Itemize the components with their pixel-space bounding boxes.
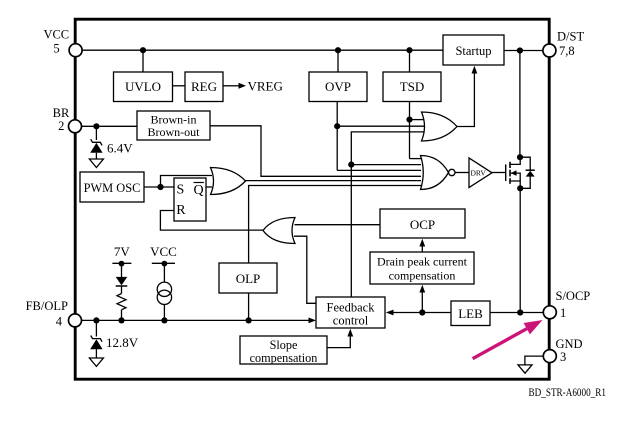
- svg-text:DRV: DRV: [471, 168, 487, 177]
- wire OVP drop: [337, 50, 339, 72]
- svg-text:OVP: OVP: [325, 79, 351, 94]
- diode 7V clamp: [116, 264, 128, 294]
- svg-text:control: control: [333, 314, 369, 328]
- svg-text:1: 1: [560, 306, 566, 320]
- flip-flop SR latch: [174, 178, 206, 221]
- svg-text:D/ST: D/ST: [557, 30, 584, 44]
- or-gate OLP-OR (left facing): [263, 218, 295, 244]
- svg-text:PWM OSC: PWM OSC: [84, 181, 141, 195]
- box Brown-in Brown-out: [137, 111, 210, 140]
- node rail 12.8V junction: [93, 317, 99, 323]
- svg-text:compensation: compensation: [250, 351, 318, 365]
- svg-text:compensation: compensation: [389, 268, 456, 282]
- svg-text:UVLO: UVLO: [125, 79, 161, 94]
- wire OR2 output to Startup: [457, 73, 474, 127]
- current source to FB pin: [157, 264, 171, 321]
- pin S/OCP 1: [543, 289, 590, 320]
- wire BR rail: [81, 125, 137, 127]
- wire Brown-out to NOR: [210, 126, 421, 177]
- or-gate OR2 (OVP/TSD/latch): [422, 112, 458, 141]
- node OSC junction: [157, 184, 163, 190]
- or-gate OR1 (OSC/Qbar): [211, 168, 246, 195]
- node riser junction: [348, 162, 354, 168]
- wire DPCC to OCP arrow: [421, 246, 423, 252]
- svg-text:LEB: LEB: [458, 306, 483, 321]
- svg-text:2: 2: [58, 119, 64, 133]
- svg-text:TSD: TSD: [400, 79, 425, 94]
- node VCC-OVP junction: [335, 47, 341, 53]
- node BR zener junction: [93, 123, 99, 129]
- wire TSD to OR2 input: [410, 119, 425, 121]
- wire NOR to DRV: [455, 172, 469, 174]
- svg-text:Drain peak current: Drain peak current: [377, 254, 468, 268]
- box Feedback control: [316, 297, 385, 328]
- node D/ST drain junction: [517, 47, 523, 53]
- svg-text:7V: 7V: [114, 244, 131, 259]
- svg-text:BD_STR-A6000_R1: BD_STR-A6000_R1: [529, 387, 607, 399]
- pin FB/OLP 4: [26, 299, 82, 328]
- node source-SOCP junction: [517, 309, 523, 315]
- zener diode 6.4V: [90, 139, 102, 159]
- wire R input path from OLP-OR: [160, 211, 263, 231]
- svg-text:6.4V: 6.4V: [107, 141, 133, 156]
- node source junction: [517, 185, 523, 191]
- wire riser to NOR input: [351, 164, 421, 166]
- wire OSC to OR1 top input: [161, 176, 213, 188]
- pin BR 2: [53, 106, 82, 133]
- wire OVP corner to NOR: [337, 169, 421, 171]
- wire source vertical: [519, 188, 521, 312]
- svg-text:S: S: [177, 182, 185, 197]
- box Drain peak current compensation: [370, 252, 474, 284]
- IC outline border: [75, 19, 549, 379]
- wire Qbar to OR1: [206, 186, 212, 188]
- pin D/ST 7,8: [543, 30, 585, 59]
- box PWM OSC: [80, 172, 144, 202]
- ground GND pin: [518, 365, 532, 373]
- svg-text:S/OCP: S/OCP: [556, 289, 591, 303]
- svg-text:Startup: Startup: [455, 44, 491, 58]
- svg-text:Q: Q: [194, 183, 204, 198]
- svg-text:VREG: VREG: [248, 78, 283, 93]
- supply bar 7V: [112, 261, 131, 267]
- pin VCC 5: [43, 28, 82, 57]
- svg-text:FB/OLP: FB/OLP: [26, 299, 68, 313]
- wire resistor to rail: [121, 310, 123, 321]
- node VCC-UVLO junction: [140, 47, 146, 53]
- wire VCC rail: [82, 49, 443, 51]
- box OLP: [219, 263, 277, 293]
- wire UVLO drop: [142, 50, 144, 72]
- wire OLP-OR lower input from Feedback control: [294, 236, 316, 303]
- node drain junction: [517, 154, 523, 160]
- box REG: [185, 72, 223, 102]
- pin GND 3: [543, 337, 582, 364]
- wire OLP down to FB rail: [248, 293, 250, 320]
- svg-text:7,8: 7,8: [559, 44, 575, 58]
- node rail OLP junction: [246, 317, 252, 323]
- wire REG to VREG arrow: [223, 85, 239, 87]
- wire zener 6.4V branch: [95, 126, 97, 140]
- wire TSD drop: [409, 50, 411, 72]
- svg-text:Slope: Slope: [270, 338, 298, 352]
- svg-text:GND: GND: [556, 337, 583, 351]
- nor-gate driver NOR: [421, 156, 455, 190]
- wire OCP to OLP-OR: [295, 224, 381, 226]
- ground below 12.8V zener: [89, 358, 103, 366]
- svg-text:OCP: OCP: [410, 217, 435, 232]
- svg-text:Feedback: Feedback: [327, 300, 376, 314]
- resistor FB pull-up: [117, 294, 126, 310]
- wire TSD corner to NOR: [410, 158, 423, 160]
- supply bar VCC: [152, 261, 175, 267]
- buffer DRV: [469, 158, 492, 188]
- wire PWM OSC to S: [144, 186, 174, 188]
- node OVP branch junction: [334, 123, 340, 129]
- wire OVP vertical: [336, 102, 338, 171]
- box Slope compensation: [240, 336, 327, 365]
- wire FB/OLP rail: [81, 319, 309, 321]
- node VCC-TSD junction: [406, 47, 412, 53]
- ground below 6.4V zener: [89, 159, 103, 168]
- svg-text:BR: BR: [53, 106, 70, 120]
- node TSD branch junction: [406, 117, 412, 123]
- svg-text:VCC: VCC: [150, 244, 177, 259]
- box OCP: [380, 209, 465, 238]
- wire OVP to OR2 input: [337, 125, 424, 127]
- wire DRV to gate: [492, 172, 505, 174]
- wire Slope compensation to Feedback control: [327, 336, 350, 348]
- svg-text:12.8V: 12.8V: [106, 335, 139, 350]
- node rail 7V junction: [118, 317, 124, 323]
- annotation magenta arrow to S/OCP: [473, 320, 543, 359]
- svg-text:3: 3: [560, 350, 566, 364]
- node DPCC junction: [419, 309, 425, 315]
- wire S/OCP to DPCC arrow: [421, 292, 423, 313]
- wire OLP up to NOR line: [249, 186, 421, 264]
- diode MOSFET body diode: [520, 157, 535, 188]
- box OVP: [309, 72, 367, 102]
- svg-text:Brown-out: Brown-out: [148, 125, 201, 139]
- svg-text:REG: REG: [191, 79, 217, 94]
- svg-text:R: R: [176, 203, 186, 218]
- wire LEB to S/OCP pin: [490, 312, 544, 314]
- wire GND symbol: [525, 356, 544, 365]
- wire Startup to D/ST: [504, 50, 543, 52]
- box Startup: [443, 35, 504, 65]
- box TSD: [383, 72, 441, 102]
- svg-text:VCC: VCC: [43, 28, 69, 42]
- box UVLO: [114, 72, 173, 102]
- wire TSD vertical: [409, 102, 411, 159]
- wire UVLO to REG: [173, 85, 186, 87]
- wire OR1 output to NOR: [246, 180, 422, 182]
- node rail VCC source junction: [161, 317, 167, 323]
- transistor power MOSFET: [506, 157, 521, 188]
- wire LEB to Feedback control arrow: [393, 312, 451, 314]
- svg-text:OLP: OLP: [236, 271, 261, 286]
- wire feedback riser to NOR and OR2: [351, 132, 424, 297]
- svg-text:5: 5: [53, 42, 59, 56]
- svg-text:4: 4: [56, 314, 63, 328]
- zener diode 12.8V: [90, 320, 102, 358]
- wire drain vertical: [519, 51, 521, 158]
- box LEB: [451, 301, 490, 326]
